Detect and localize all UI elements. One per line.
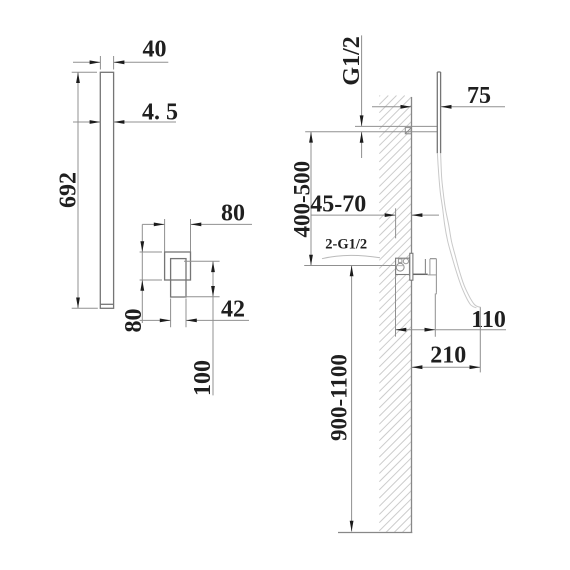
dim 692 arrows [76,72,80,308]
spout curve [437,154,476,308]
dim 80 left ext lines [140,252,162,280]
svg-text:80: 80 [221,201,245,227]
valve handle rect [171,259,186,297]
spout plate [437,72,440,153]
floor line [338,532,412,534]
vertical dim arrows [211,261,215,297]
dim 400-500 line [310,132,312,266]
handle front edge [435,259,437,293]
dim 110 arrows [396,328,436,332]
svg-text:100: 100 [190,360,216,396]
handle stem [413,273,428,275]
dim 40 arrows [90,60,125,64]
valve box cartridge circle [396,263,404,271]
valve square [165,252,191,280]
svg-text:45-70: 45-70 [310,192,366,218]
dim 900-1100 line [351,266,353,532]
dim 110 ext lines [396,275,436,337]
dim 42 arrows [160,319,197,323]
valve box [396,258,411,274]
valve box small rect [398,259,402,263]
dim 80 top ext lines [165,219,191,252]
dim 45-70 arrows [385,213,423,217]
dim 692 ext lines [72,72,98,308]
svg-text:42: 42 [221,297,245,323]
svg-text:4. 5: 4. 5 [142,100,178,126]
dim 4.5 lines [73,121,176,123]
dim 110 line [396,329,507,331]
dim 80 top arrows [154,223,202,227]
handle lower stem [428,274,437,276]
dim 42 ext lines [171,299,186,328]
svg-text:692: 692 [55,172,81,208]
dim 75 lines [372,106,505,108]
svg-text:110: 110 [471,307,506,333]
vertical dim ext lines (handle) [184,261,220,297]
svg-text:G1/2: G1/2 [339,36,365,85]
svg-text:2-G1/2: 2-G1/2 [325,237,367,253]
dim 75 arrows [401,105,452,109]
handle back edge [424,259,426,274]
handle top edge [430,258,437,260]
slide bar end cap [100,303,113,305]
svg-text:75: 75 [467,83,491,109]
wall face line [411,97,413,533]
2-G1/2 leader [322,255,380,258]
dim 210 ext line [479,307,481,372]
dim 210 line [412,366,481,368]
spout pipe lines [305,126,437,131]
valve box flange [408,257,410,276]
handle foot [435,293,437,295]
vertical dim line / 100 line [212,261,214,395]
valve center line [304,265,395,267]
svg-text:900-1100: 900-1100 [327,354,352,441]
dim 692 line [77,72,79,308]
G1/2 arrows [360,115,364,142]
dim 210 arrows [412,365,481,369]
dim 400-500 arrows [309,132,313,266]
pipe fitting in wall [405,128,411,134]
dim 45-70 lines [311,214,439,216]
dim 80 left arrows [140,241,144,291]
dim 45-70 ext line [395,208,397,238]
slide bar [100,72,113,308]
dim 40 lines [73,61,168,63]
dim 80 top lines [142,223,252,225]
handle mid edge [429,259,431,275]
dim 40 ext lines [100,56,113,70]
wall hatch [379,96,411,533]
valve center line inside box [396,265,404,267]
G1/2 dim lines [361,35,363,158]
valve box small circle [403,259,408,264]
dim 900-1100 arrows [350,266,354,532]
dim 42 lines [140,319,249,321]
dim 4.5 arrows [90,120,125,124]
dim 80 left line [141,224,143,323]
svg-text:210: 210 [430,343,466,369]
valve escutcheon [410,253,413,280]
svg-text:40: 40 [143,37,167,63]
